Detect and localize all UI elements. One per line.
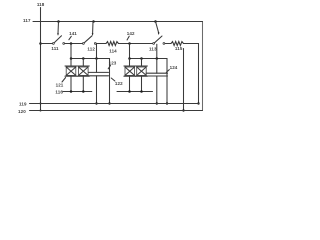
- contact of switch 112: [94, 43, 96, 45]
- capacitor 123b bottom plate: [136, 75, 148, 77]
- capacitor 121b (crossed box) top lead: [82, 59, 84, 67]
- arrowhead on switch 112 drop: [92, 33, 94, 35]
- wire: bottom electrode line of bank 2: [117, 91, 153, 93]
- wire: right side drop of bus 117: [202, 22, 204, 111]
- wire: drop from bus 117 to switch 113: [156, 22, 159, 33]
- node: dot sub-bus 1 at X-cap A: [70, 57, 73, 60]
- wire: riser from switch 113 contact down to capacitor 124: [156, 44, 158, 58]
- capacitor 121a top plate: [65, 65, 77, 67]
- node: dot at riser to capacitor bank 2: [128, 42, 131, 45]
- node: dot sub-bus 2 at X-cap A: [128, 57, 131, 60]
- leader for label 141: [69, 36, 71, 39]
- arrowhead on switch 111 drop: [57, 33, 59, 35]
- switch S111 arm: [53, 43, 55, 45]
- node: junction dot on bus at switch 113 drop: [154, 20, 157, 23]
- node: dot bottom line at X-cap B: [82, 90, 85, 93]
- capacitor C124 bottom lead: [156, 76, 158, 104]
- resistor R115: [171, 42, 183, 46]
- node: dot capacitor 122 at rail 1: [95, 102, 97, 104]
- wire: drop from bus 117 to switch 112: [92, 22, 94, 34]
- capacitor 121a bottom plate: [65, 75, 77, 77]
- capacitor 123a bottom lead: [129, 76, 131, 91]
- node: dot resistor output at rail 1: [197, 102, 199, 104]
- wire: top bus line 117: [33, 21, 203, 23]
- wire: bottom rail 1 (line 119): [30, 103, 200, 105]
- node: dot sub-bus 1 at X-cap B: [82, 57, 85, 60]
- node: dot at line 118 / switch row: [39, 42, 42, 45]
- wire: switch 112 contact to resistor 114: [96, 43, 106, 45]
- wire: riser from switch 112 contact down to capacitor 122: [96, 44, 98, 59]
- capacitor C122 top lead: [96, 59, 98, 73]
- capacitor C122 bottom plate: [89, 75, 109, 77]
- node: dot bottom line 2 at X-cap B: [140, 90, 143, 93]
- wire: switch 111 contact to switch 112: [65, 43, 83, 45]
- capacitor C124 top plate: [146, 72, 168, 74]
- wire: bottom electrode line of bank 1: [63, 91, 92, 93]
- capacitor 121b top plate: [77, 65, 89, 67]
- svg-text:112: 112: [87, 46, 95, 51]
- capacitor 121b X mark: [79, 67, 89, 75]
- contact of switch 113: [163, 43, 165, 45]
- wire: vertical control line 118: [40, 8, 42, 111]
- node: dot bottom line 2 at X-cap A: [128, 90, 131, 93]
- node: dot bottom line at X-cap A: [70, 90, 73, 93]
- leader for label 142: [127, 36, 129, 40]
- node: dot at line 118 / bottom rail 1: [40, 103, 42, 105]
- node: dot sub-bus 2 at X-cap B: [140, 57, 143, 60]
- node: junction dot on bus at switch 111 drop: [57, 20, 60, 23]
- svg-text:124: 124: [170, 65, 178, 70]
- node: dot sub-bus 2 at capacitor 124 lead: [156, 57, 159, 60]
- switch S113 arm: [153, 43, 155, 45]
- capacitor 121b bottom lead: [82, 76, 84, 91]
- capacitor 123a (crossed box) top lead: [129, 59, 131, 67]
- wire: bottom rail 2 (line 120): [30, 110, 203, 112]
- wire: sub-bus of capacitor bank 2: [130, 59, 168, 104]
- capacitor 123b X mark: [137, 67, 147, 75]
- capacitor 123b bottom lead: [141, 76, 143, 91]
- svg-text:119: 119: [19, 102, 27, 107]
- svg-text:120: 120: [18, 109, 26, 114]
- wire: riser from switch row down to bus of capacitor bank 1: [70, 44, 72, 59]
- node: dot capacitor 124 at rail 1: [156, 102, 158, 104]
- svg-text:123: 123: [109, 60, 117, 65]
- node: dot at rail 2: [182, 109, 184, 111]
- switch S112 arm: [83, 43, 85, 45]
- leader for label 123: [108, 65, 110, 68]
- wire: switch 113 contact to resistor 115: [165, 43, 171, 45]
- capacitor 123a top plate: [124, 65, 136, 67]
- wire: line under resistor 115 down to rail 2: [183, 49, 185, 111]
- svg-text:113: 113: [149, 46, 157, 51]
- capacitor 123b (crossed box) top lead: [141, 59, 143, 67]
- node: dot sub-bus 1 at capacitor 122 lead: [95, 57, 98, 60]
- capacitor 121a bottom lead: [70, 76, 72, 91]
- capacitor 123b top plate: [136, 65, 148, 67]
- node: dot sub-bus 2 end wire at rail 1: [166, 102, 168, 104]
- wire: switch row lead from line 118 to switch 111: [41, 43, 53, 45]
- capacitor C124 bottom plate: [146, 75, 168, 77]
- resistor R114: [106, 42, 118, 46]
- svg-text:111: 111: [51, 46, 59, 51]
- node: dot at riser to capacitor bank 1: [70, 42, 73, 45]
- capacitor 121a box: [66, 67, 76, 75]
- svg-text:114: 114: [109, 49, 117, 54]
- leader for label 124: [166, 70, 169, 73]
- capacitor 123b box: [137, 67, 147, 75]
- leader for label 122: [111, 78, 115, 81]
- svg-text:121: 121: [56, 82, 64, 87]
- svg-text:115: 115: [175, 46, 183, 51]
- capacitor C124 top lead: [156, 59, 158, 74]
- svg-text:118: 118: [37, 2, 45, 7]
- svg-text:141: 141: [69, 31, 77, 36]
- node: junction dot on bus at switch 112 drop: [92, 20, 95, 23]
- capacitor 123a bottom plate: [124, 75, 136, 77]
- wire: sub-bus of capacitor bank 1: [71, 59, 110, 104]
- node: dot sub-bus 1 end wire at rail 1: [108, 102, 110, 104]
- leader for label 121: [62, 78, 66, 83]
- arrowhead on switch 113 drop: [158, 32, 160, 35]
- capacitor 121b box: [79, 67, 89, 75]
- capacitor C122 bottom lead: [96, 76, 98, 104]
- capacitor 121b bottom plate: [77, 75, 89, 77]
- svg-text:117: 117: [23, 18, 31, 23]
- capacitor C122 top plate: [89, 71, 109, 73]
- svg-text:142: 142: [127, 31, 135, 36]
- wire: riser from switch row down to bus of capacitor bank 2: [129, 44, 131, 59]
- svg-text:122: 122: [115, 81, 123, 86]
- capacitor 123a box: [125, 67, 135, 75]
- wire: drop from bus 117 to switch 111: [57, 22, 60, 34]
- wire: resistor 115 output turning down to rail 1: [184, 44, 199, 104]
- capacitor 121a X mark: [66, 67, 76, 75]
- wire: resistor 114 to switch 113: [119, 43, 153, 45]
- node: dot at line 118 / bottom rail 2: [40, 110, 42, 112]
- capacitor 121a (crossed box) top lead: [70, 59, 72, 67]
- contact of switch 111: [63, 43, 65, 45]
- svg-text:116: 116: [55, 89, 63, 94]
- capacitor 123a X mark: [125, 67, 135, 75]
